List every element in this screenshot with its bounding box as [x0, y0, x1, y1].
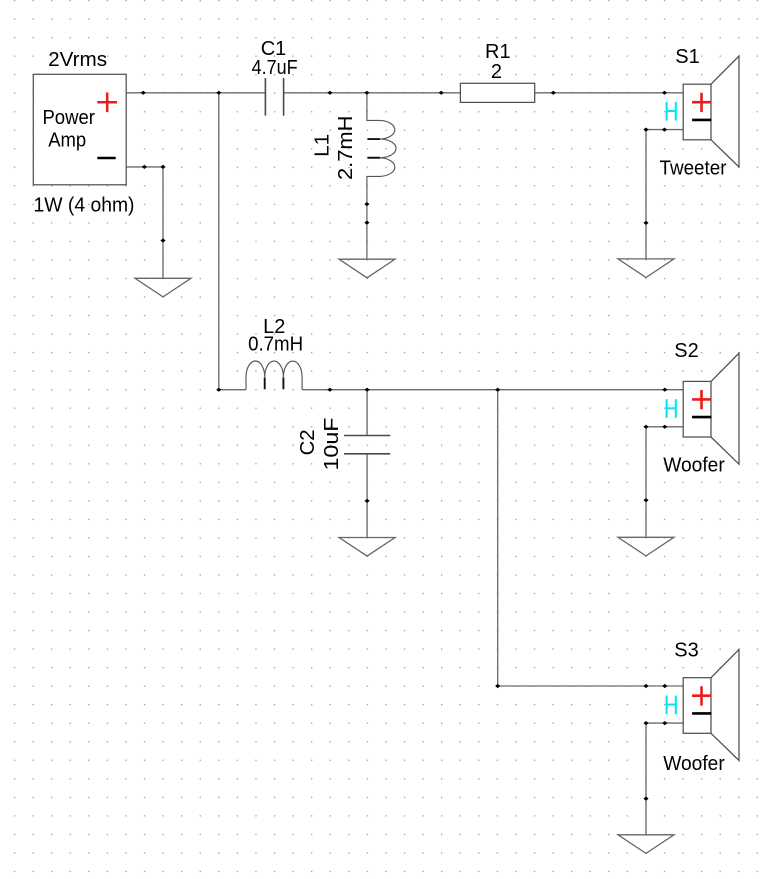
svg-text:S2: S2: [674, 340, 698, 362]
svg-text:Woofer: Woofer: [663, 753, 725, 775]
svg-text:2.7mH: 2.7mH: [335, 116, 357, 181]
svg-text:2Vrms: 2Vrms: [48, 49, 107, 71]
svg-text:S3: S3: [674, 640, 698, 662]
svg-text:Amp: Amp: [48, 129, 86, 151]
svg-text:R1: R1: [485, 41, 511, 63]
svg-text:0.7mH: 0.7mH: [248, 333, 303, 355]
svg-text:4.7uF: 4.7uF: [252, 57, 298, 79]
svg-text:S1: S1: [675, 46, 699, 68]
svg-text:Woofer: Woofer: [663, 455, 725, 477]
svg-text:2: 2: [491, 61, 502, 83]
svg-text:10uF: 10uF: [321, 418, 343, 471]
svg-text:C2: C2: [297, 429, 319, 455]
svg-text:1W (4 ohm): 1W (4 ohm): [34, 194, 135, 216]
svg-text:Tweeter: Tweeter: [660, 158, 727, 180]
svg-text:L1: L1: [312, 134, 334, 157]
svg-text:Power: Power: [42, 107, 95, 129]
